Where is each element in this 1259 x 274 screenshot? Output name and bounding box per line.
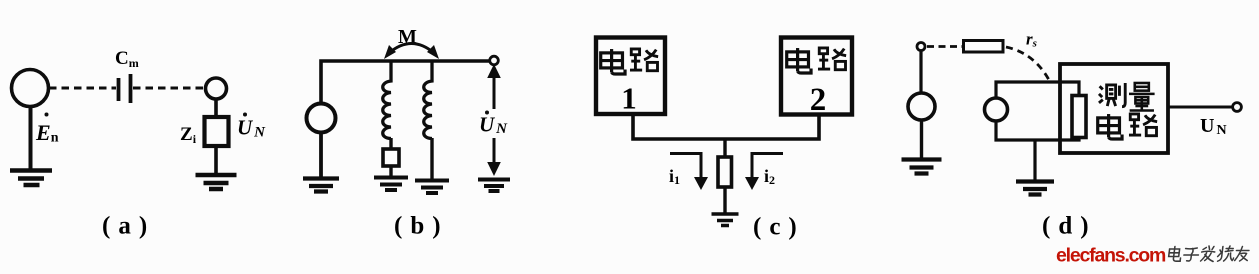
label 电路 in box 1 (601, 49, 658, 74)
label U_N (a) (237, 113, 266, 141)
circuit 2 box (781, 38, 852, 115)
svg-text:Cm: Cm (115, 48, 139, 70)
watermark char 友 (1235, 247, 1250, 262)
mutual inductance arc (384, 44, 439, 60)
source E_n circle (12, 70, 49, 107)
svg-text:2: 2 (810, 82, 827, 118)
svg-text:i1: i1 (669, 166, 680, 187)
wire source to ground (d) left (920, 120, 923, 159)
ground (d) middle (1016, 182, 1054, 195)
watermark char 电 (1168, 247, 1182, 262)
ground (b) left (303, 179, 339, 192)
terminal circle (d) right (1233, 103, 1242, 112)
ground (b) right (478, 180, 510, 192)
circuit 1 box (596, 38, 665, 115)
svg-text:UN: UN (479, 113, 508, 138)
inductor L2 (424, 61, 432, 139)
wire terminal to source (d) (919, 51, 922, 94)
label E_n (35, 113, 59, 146)
svg-text:(c): (c) (753, 214, 805, 241)
source circle (d) middle (985, 98, 1008, 121)
label 电路 in box 2 (787, 48, 846, 73)
wire Z box to ground (214, 146, 218, 175)
resistor box (c) (718, 157, 732, 187)
ground (b) middle-left (374, 178, 408, 191)
wire source to ground (b) (319, 133, 323, 179)
watermark char 烧 (1217, 246, 1235, 261)
svg-text:1: 1 (621, 81, 637, 116)
voltage arrow lower line (493, 138, 496, 163)
svg-text:(d): (d) (1042, 213, 1097, 240)
wire top to inner resistor (996, 82, 1079, 98)
dashed wire to r_s (927, 45, 963, 48)
dashed wire capacitor to node (133, 87, 204, 90)
ground (c) (712, 214, 739, 226)
capacitor C_m plates (119, 74, 131, 103)
terminal circle (b) (490, 56, 499, 65)
label U_N (b) (479, 111, 508, 138)
wire L2 to ground (430, 138, 433, 180)
svg-text:rs: rs (1026, 30, 1037, 50)
inductor L1 (383, 61, 391, 139)
node circle (a) (206, 78, 227, 99)
dashed curve to box (1006, 47, 1049, 80)
voltage arrow upper line (493, 76, 496, 109)
wire resistor to ground (389, 166, 392, 177)
wire L1 to resistor (389, 138, 392, 149)
ground (b) middle-right (415, 181, 449, 194)
source circle (b) (307, 104, 336, 133)
voltage arrow down head (487, 162, 501, 176)
wire resistor to ground (c) (723, 187, 726, 214)
svg-text:UN: UN (237, 116, 266, 141)
wire source to ground (29, 107, 33, 171)
svg-text:(b): (b) (394, 213, 449, 240)
measuring circuit box (1060, 64, 1168, 153)
current arrow i1 (670, 154, 708, 191)
watermark char 发 (1201, 246, 1216, 262)
label 测量 (1099, 83, 1155, 111)
ground (d) left (902, 160, 942, 174)
svg-text:En: En (35, 120, 59, 146)
wire center tap (723, 139, 726, 157)
resistor box (b) (383, 149, 399, 166)
wire bus (c) (633, 114, 819, 139)
output wire (1168, 106, 1232, 109)
inner resistor box (1072, 96, 1086, 138)
current arrow i2 (745, 154, 783, 191)
resistor r_s box (964, 41, 1004, 53)
impedance Z_i box (205, 117, 229, 146)
dashed wire circle to capacitor (49, 87, 116, 90)
svg-text:UN: UN (1200, 115, 1227, 138)
ground (a) left (10, 171, 52, 186)
terminal circle (d) left (917, 43, 925, 51)
svg-text:(a): (a) (102, 213, 155, 240)
wire bottom to inner resistor (996, 121, 1079, 140)
voltage arrow U_N up head (487, 64, 501, 78)
label 电路 (d) (1098, 114, 1157, 139)
svg-text:Zi: Zi (180, 124, 197, 146)
ground (a) right (196, 175, 237, 189)
wire node to Z box (214, 99, 218, 117)
svg-text:elecfans.com: elecfans.com (1056, 245, 1166, 267)
svg-text:i2: i2 (764, 166, 775, 187)
watermark char 子 (1183, 248, 1199, 261)
top wire (b) (321, 61, 490, 103)
wire ground tap (d) (1033, 140, 1036, 181)
source circle (d) left (908, 93, 935, 120)
